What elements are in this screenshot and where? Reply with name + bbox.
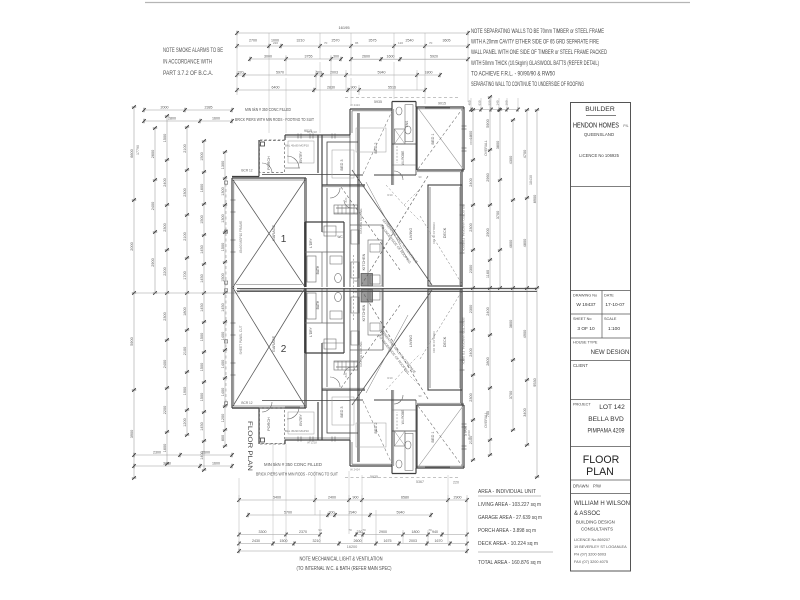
svg-text:4900: 4900 [523, 330, 527, 338]
svg-text:QUEENSLAND: QUEENSLAND [584, 132, 614, 137]
svg-text:6600: 6600 [130, 149, 134, 157]
svg-text:2370: 2370 [299, 530, 307, 534]
svg-text:900: 900 [353, 496, 359, 500]
svg-text:WC: WC [337, 235, 343, 239]
svg-text:220: 220 [273, 41, 278, 45]
svg-text:DECK: DECK [443, 336, 447, 347]
left-bottom mini chain [134, 454, 232, 456]
unit 2 living dining roof diagonals [341, 290, 462, 464]
extension lines top [269, 48, 468, 133]
svg-text:HOUSE TYPE: HOUSE TYPE [573, 341, 598, 345]
svg-text:NOTE SEPARATING WALLS TO BE 70: NOTE SEPARATING WALLS TO BE 70mm TIMBER … [471, 28, 604, 35]
svg-text:5900: 5900 [486, 119, 490, 127]
svg-text:CONSULTANTS: CONSULTANTS [581, 527, 613, 532]
svg-text:2600: 2600 [354, 539, 362, 543]
svg-text:3700: 3700 [509, 391, 513, 399]
svg-text:PROJECT: PROJECT [573, 403, 591, 407]
svg-text:DATE: DATE [604, 294, 614, 298]
unit 1 hallway robe walls [305, 188, 344, 287]
svg-text:BED 1: BED 1 [431, 134, 435, 145]
svg-text:2800: 2800 [168, 117, 176, 121]
svg-text:5367: 5367 [416, 480, 424, 484]
svg-text:3575: 3575 [369, 39, 377, 43]
left-top mini chain [144, 109, 232, 111]
svg-text:16195: 16195 [338, 25, 350, 30]
svg-text:BELLA BVD: BELLA BVD [588, 416, 624, 423]
svg-text:WALL PANEL WITH ONE SIDE OF TI: WALL PANEL WITH ONE SIDE OF TIMBER or ST… [471, 49, 607, 56]
svg-text:TO ACHIEVE F.R.L. - 90/90/90 &: TO ACHIEVE F.R.L. - 90/90/90 & RW50 [471, 70, 555, 77]
svg-text:1400: 1400 [221, 332, 225, 340]
unit 2 bedroom3 walls [322, 288, 365, 462]
svg-text:BCR 12: BCR 12 [241, 169, 252, 173]
svg-text:SEPARATING WALL TO CONTINUE TO: SEPARATING WALL TO CONTINUE TO UNDERSIDE… [471, 81, 584, 88]
unit 2 hall walls [334, 362, 416, 400]
svg-text:BRICK PIERS WITH MIN RODS - FO: BRICK PIERS WITH MIN RODS - FOOTING TO S… [235, 117, 314, 122]
svg-text:PH (07) 3200 6003: PH (07) 3200 6003 [574, 553, 606, 557]
svg-text:820: 820 [344, 372, 348, 377]
svg-text:95: 95 [355, 41, 359, 45]
unit 2 outer walls [232, 287, 464, 474]
unit 2 kitchen sink dark box [361, 290, 373, 303]
svg-text:1800: 1800 [425, 71, 433, 75]
svg-text:5516: 5516 [388, 86, 396, 90]
svg-text:W 2424: W 2424 [350, 468, 360, 472]
svg-text:300: 300 [333, 55, 339, 59]
svg-text:LIVING: LIVING [409, 335, 413, 347]
svg-text:1500: 1500 [221, 243, 225, 251]
svg-text:GARAGE: GARAGE [272, 335, 276, 352]
svg-text:DRAWN: DRAWN [573, 484, 589, 489]
unit 2 bed furniture rects [288, 397, 386, 447]
svg-text:2300: 2300 [469, 223, 473, 231]
unit 1 pier note text [235, 107, 314, 122]
svg-text:PIMPAMA 4209: PIMPAMA 4209 [588, 428, 625, 435]
svg-text:5970: 5970 [276, 71, 284, 75]
unit 1 living dining roof diagonals [341, 111, 462, 285]
unit 2 stair treads [334, 361, 358, 370]
extension lines bottom [239, 444, 448, 540]
svg-text:5940: 5940 [378, 71, 386, 75]
svg-text:1600: 1600 [212, 117, 220, 121]
svg-text:300: 300 [329, 511, 335, 515]
svg-text:R10: R10 [387, 376, 393, 380]
unit 1 bedroom3 walls [322, 113, 365, 287]
right dimension chains [462, 95, 539, 479]
svg-text:140: 140 [496, 100, 500, 105]
unit 2 hallway robe walls [305, 288, 344, 387]
svg-text:OVERALL: OVERALL [484, 140, 488, 156]
unit 1 garage pier dashed line [225, 178, 228, 288]
unit 2 kitchen walls and bench [350, 288, 383, 440]
svg-text:MIN 5kN # 350 CONC FILLED: MIN 5kN # 350 CONC FILLED [245, 107, 291, 112]
svg-text:2940: 2940 [349, 511, 357, 515]
left dimension chains [130, 105, 240, 480]
unit 1 porch outline [260, 141, 285, 173]
title block builder header [573, 106, 629, 158]
svg-text:1600: 1600 [200, 184, 204, 192]
svg-text:2200: 2200 [163, 406, 167, 414]
svg-text:2300: 2300 [469, 393, 473, 401]
unit 1 door arcs [262, 156, 403, 208]
svg-text:ENS: ENS [405, 121, 409, 128]
svg-text:DW: DW [353, 279, 358, 283]
unit 2 pier note text [256, 462, 338, 477]
svg-text:BED 2: BED 2 [374, 423, 378, 434]
svg-text:9015: 9015 [438, 102, 446, 106]
svg-text:KITCHEN: KITCHEN [362, 253, 366, 270]
unit 2 bedroom2 walls [285, 387, 322, 440]
unit 1 window marks on walls [231, 126, 467, 253]
svg-text:3700: 3700 [496, 211, 500, 219]
svg-text:STAIR: STAIR [464, 425, 468, 436]
right-top mini chain [468, 98, 520, 112]
svg-text:1500: 1500 [280, 539, 288, 543]
unit 1 ensuite walk-in-robe walls [392, 105, 416, 185]
svg-text:16200: 16200 [347, 545, 358, 549]
svg-text:2300: 2300 [163, 223, 167, 231]
svg-text:SCALE: SCALE [604, 317, 617, 321]
svg-text:1800: 1800 [183, 307, 187, 315]
svg-text:OVERALL: OVERALL [484, 412, 488, 428]
svg-text:3300: 3300 [259, 530, 267, 534]
unit 1 bed furniture rects [288, 128, 386, 178]
unit 1 hall walls [334, 175, 416, 213]
svg-text:2960: 2960 [486, 173, 490, 181]
svg-text:FLOOR PLAN: FLOOR PLAN [246, 421, 253, 471]
svg-text:3000: 3000 [264, 55, 272, 59]
svg-text:1450: 1450 [221, 303, 225, 311]
unit 2 roof dashed line above top wall [345, 477, 460, 479]
svg-text:W 19437: W 19437 [576, 302, 596, 308]
svg-text:2100: 2100 [183, 347, 187, 355]
svg-text:WILLIAM H WILSON: WILLIAM H WILSON [574, 501, 630, 507]
svg-text:2900: 2900 [379, 530, 387, 534]
svg-text:SHEET PANEL CUT: SHEET PANEL CUT [239, 325, 243, 354]
svg-text:9015: 9015 [304, 129, 312, 133]
svg-text:6580: 6580 [401, 496, 409, 500]
svg-text:1450: 1450 [200, 245, 204, 253]
svg-text:GARAGE: GARAGE [272, 224, 276, 241]
svg-text:2600: 2600 [362, 55, 370, 59]
svg-text:KITCHEN: KITCHEN [362, 304, 366, 321]
unit 2 garage door line [236, 290, 302, 292]
house type row [571, 338, 631, 356]
svg-text:2300: 2300 [163, 312, 167, 320]
svg-text:5900: 5900 [130, 337, 134, 345]
svg-text:BAL 45x90 MGP10: BAL 45x90 MGP10 [285, 144, 309, 148]
svg-text:BRICK PIERS WITH MIN RODS - FO: BRICK PIERS WITH MIN RODS - FOOTING TO S… [256, 472, 338, 477]
svg-text:2900: 2900 [151, 258, 155, 266]
svg-text:2800: 2800 [486, 357, 490, 365]
svg-text:3800: 3800 [509, 320, 513, 328]
svg-text:1500: 1500 [200, 215, 204, 223]
svg-text:BED 2: BED 2 [374, 143, 378, 154]
svg-text:1200: 1200 [221, 414, 225, 422]
unit 1 wall annotation texts [307, 103, 473, 283]
unit 1 roof valley dashes [386, 185, 420, 221]
svg-text:1450: 1450 [200, 274, 204, 282]
svg-text:P/L: P/L [623, 124, 628, 128]
unit 1 garage walls [232, 175, 350, 288]
designer details cell [571, 494, 631, 565]
svg-text:2300: 2300 [469, 305, 473, 313]
svg-text:70: 70 [362, 528, 366, 532]
svg-text:70: 70 [428, 528, 432, 532]
svg-text:2: 2 [281, 344, 287, 355]
svg-text:1: 1 [281, 234, 287, 245]
svg-text:DW: DW [353, 290, 358, 294]
svg-text:ENTRY: ENTRY [299, 414, 303, 426]
svg-text:8900: 8900 [533, 195, 537, 203]
svg-text:4600: 4600 [509, 240, 513, 248]
svg-text:W.I.ROBE: W.I.ROBE [401, 410, 405, 425]
svg-text:1500: 1500 [221, 273, 225, 281]
svg-text:3755: 3755 [305, 55, 313, 59]
note separating walls text block [471, 28, 607, 88]
unit 1 hall dashed line [353, 255, 355, 287]
svg-text:2200: 2200 [163, 267, 167, 275]
svg-text:2400: 2400 [151, 202, 155, 210]
svg-text:W 1218: W 1218 [307, 441, 317, 445]
area schedule table [478, 489, 553, 566]
floor plan title cell [571, 447, 631, 479]
svg-text:PORCH: PORCH [267, 417, 271, 431]
svg-text:320: 320 [238, 71, 244, 75]
svg-text:BUILDING DESIGN: BUILDING DESIGN [576, 520, 615, 525]
svg-text:BED 3: BED 3 [340, 407, 344, 418]
svg-text:LICENCE No 869207: LICENCE No 869207 [574, 538, 610, 542]
svg-text:4300: 4300 [509, 156, 513, 164]
svg-text:1200: 1200 [183, 418, 187, 426]
svg-text:RAKING CEILING: RAKING CEILING [359, 208, 363, 234]
svg-text:2900: 2900 [486, 228, 490, 236]
svg-text:1300: 1300 [221, 214, 225, 222]
svg-text:3210: 3210 [313, 539, 321, 543]
svg-text:SELECTED HANDRAIL TO DECK: SELECTED HANDRAIL TO DECK [462, 204, 466, 252]
svg-text:2600: 2600 [151, 150, 155, 158]
svg-text:LOT 142: LOT 142 [599, 404, 625, 411]
svg-text:1500: 1500 [200, 152, 204, 160]
svg-text:17790: 17790 [136, 145, 140, 155]
project row [571, 400, 631, 435]
svg-text:1300: 1300 [221, 187, 225, 195]
svg-text:NOTE MECHANICAL LIGHT & VENTIL: NOTE MECHANICAL LIGHT & VENTILATION [300, 557, 383, 563]
svg-text:1600: 1600 [212, 462, 220, 466]
svg-text:2540: 2540 [406, 39, 414, 43]
svg-text:820: 820 [344, 197, 348, 202]
svg-text:3605: 3605 [443, 39, 451, 43]
svg-text:220: 220 [453, 481, 459, 485]
svg-text:L'DRY: L'DRY [309, 237, 313, 247]
svg-text:DO 30 CHORD: DO 30 CHORD [432, 331, 436, 353]
svg-text:2000: 2000 [161, 106, 169, 110]
svg-text:BED 1: BED 1 [431, 432, 435, 443]
unit 1 deck walls [428, 185, 462, 286]
svg-text:(TO INTERNAL W.C. & BATH (REFE: (TO INTERNAL W.C. & BATH (REFER MAIN SPE… [297, 566, 392, 572]
unit 2 garage walls [232, 288, 350, 408]
svg-text:5920: 5920 [430, 55, 438, 59]
unit 2 deck walls [428, 289, 462, 390]
svg-text:1300: 1300 [221, 161, 225, 169]
unit 1 garage door line [236, 284, 302, 286]
svg-text:NOTE SMOKE ALARMS TO BE: NOTE SMOKE ALARMS TO BE [163, 47, 223, 54]
svg-text:1670: 1670 [435, 539, 443, 543]
unit 2 bedroom1 roof diagonals [418, 406, 463, 467]
unit 1 bathroom fixtures [307, 226, 342, 283]
svg-text:70: 70 [324, 41, 328, 45]
svg-text:2100: 2100 [183, 232, 187, 240]
svg-text:2300: 2300 [183, 188, 187, 196]
svg-text:2100: 2100 [183, 144, 187, 152]
svg-text:PART 3.7.2 OF B.C.A.: PART 3.7.2 OF B.C.A. [163, 70, 213, 77]
svg-text:L'DRY: L'DRY [309, 326, 313, 336]
unit 2 window marks on walls [231, 322, 467, 449]
svg-text:BCR 12: BCR 12 [241, 401, 252, 405]
svg-text:45x90 MGP10 FRAME: 45x90 MGP10 FRAME [239, 221, 243, 253]
svg-text:500: 500 [316, 71, 322, 75]
svg-text:FLOOR: FLOOR [583, 454, 620, 466]
party wall extension right [462, 287, 537, 289]
unit 2 wall annotation texts [307, 290, 471, 472]
svg-text:2900: 2900 [454, 496, 462, 500]
svg-text:1400: 1400 [221, 360, 225, 368]
svg-text:2400: 2400 [328, 496, 336, 500]
party wall extension left [134, 292, 240, 294]
svg-text:19 BEVERLEY ST LOGANLEA: 19 BEVERLEY ST LOGANLEA [574, 545, 627, 549]
svg-text:3800: 3800 [496, 141, 500, 149]
svg-text:W 1818: W 1818 [469, 135, 473, 145]
svg-text:2400: 2400 [469, 178, 473, 186]
svg-text:2430: 2430 [252, 539, 260, 543]
svg-text:2300: 2300 [469, 265, 473, 273]
svg-text:5935: 5935 [370, 475, 378, 479]
svg-text:1:100: 1:100 [608, 326, 620, 332]
svg-text:5935: 5935 [374, 100, 382, 104]
unit 2 roof valley dashes [386, 354, 420, 390]
svg-text:BUILDER: BUILDER [585, 106, 615, 113]
svg-text:P/W: P/W [593, 484, 601, 489]
note smoke alarms text block [163, 47, 223, 77]
unit 2 bathroom fixtures [307, 292, 342, 349]
svg-text:1800: 1800 [412, 530, 420, 534]
svg-text:5700: 5700 [284, 511, 292, 515]
svg-text:1600: 1600 [387, 55, 395, 59]
svg-text:DECK AREA - 10.224 sq m: DECK AREA - 10.224 sq m [478, 541, 538, 547]
svg-text:3210: 3210 [297, 39, 305, 43]
svg-text:LICENCE No 106925: LICENCE No 106925 [579, 153, 619, 158]
svg-text:2600: 2600 [202, 451, 210, 455]
svg-text:HENDON HOMES: HENDON HOMES [573, 121, 619, 130]
svg-text:IN ACCORDANCE WITH: IN ACCORDANCE WITH [163, 59, 212, 66]
unit 2 porch outline [260, 408, 285, 444]
unit 2 hall dashed line [353, 288, 355, 320]
svg-text:PLAN: PLAN [586, 466, 614, 478]
svg-text:NEW DESIGN: NEW DESIGN [591, 350, 630, 356]
svg-text:5940: 5940 [397, 511, 405, 515]
svg-text:1900: 1900 [183, 387, 187, 395]
svg-text:3 OF 10: 3 OF 10 [577, 326, 595, 332]
svg-text:3400: 3400 [523, 408, 527, 416]
drawn row [571, 480, 631, 489]
svg-text:1500: 1500 [163, 134, 167, 142]
svg-text:& ASSOC: & ASSOC [574, 511, 601, 517]
bottom dimension chains [237, 475, 469, 572]
unit 1 outer walls [232, 102, 464, 289]
unit 2 door arcs [262, 367, 403, 419]
svg-text:1500: 1500 [200, 393, 204, 401]
svg-text:70: 70 [429, 41, 433, 45]
svg-text:120: 120 [398, 41, 403, 45]
svg-text:BATH: BATH [316, 265, 320, 274]
title block divider lines [571, 186, 631, 188]
svg-text:1500: 1500 [200, 363, 204, 371]
svg-text:1450: 1450 [200, 303, 204, 311]
svg-text:BATH: BATH [316, 300, 320, 309]
svg-text:2003: 2003 [409, 539, 417, 543]
svg-text:RAKING CEILING: RAKING CEILING [359, 341, 363, 367]
client row [571, 361, 631, 369]
svg-text:4700: 4700 [523, 150, 527, 158]
svg-text:BED 3: BED 3 [340, 160, 344, 171]
svg-text:17-10-07: 17-10-07 [605, 302, 625, 308]
svg-text:2300: 2300 [153, 451, 161, 455]
svg-text:1700: 1700 [183, 271, 187, 279]
svg-text:TOTAL AREA - 160.876 sq m: TOTAL AREA - 160.876 sq m [478, 560, 541, 566]
top dimension chains [235, 25, 470, 95]
svg-text:1500: 1500 [200, 333, 204, 341]
svg-text:SELECTED HANDRAIL TO DECK: SELECTED HANDRAIL TO DECK [462, 317, 466, 365]
svg-text:9530: 9530 [533, 378, 537, 386]
unit 1 bedroom2 walls [285, 135, 322, 188]
svg-text:W 2424: W 2424 [350, 103, 360, 107]
unit 1 roof dashed line above top wall [345, 97, 460, 99]
svg-text:BAL 45x90 MGP10: BAL 45x90 MGP10 [285, 429, 309, 433]
svg-text:1400: 1400 [221, 388, 225, 396]
svg-text:W.I.ROBE: W.I.ROBE [401, 151, 405, 166]
svg-text:WITH 50mm THICK (10.5kg/m) GLA: WITH 50mm THICK (10.5kg/m) GLASWOOL BATT… [471, 60, 599, 67]
svg-text:2700: 2700 [249, 39, 257, 43]
unit 1 room labels [267, 121, 447, 275]
svg-text:WITH A 20mm CAVITY EITHER SIDE: WITH A 20mm CAVITY EITHER SIDE OF 65 GRD… [471, 39, 599, 46]
unit 2 porch post [261, 438, 265, 442]
svg-text:FAX (07) 3200 4075: FAX (07) 3200 4075 [574, 560, 608, 564]
unit 2 bedroom1 walls [417, 403, 464, 468]
svg-text:1600: 1600 [163, 444, 167, 452]
svg-text:2400: 2400 [163, 178, 167, 186]
unit 1 kitchen walls and bench [350, 135, 383, 287]
svg-text:2570: 2570 [332, 39, 340, 43]
svg-text:R10: R10 [387, 193, 393, 197]
unit 2 room labels [267, 300, 468, 442]
svg-text:1675: 1675 [384, 539, 392, 543]
svg-text:4800: 4800 [523, 239, 527, 247]
svg-text:DRAWING No: DRAWING No [573, 294, 597, 298]
unit 1 stair treads [334, 205, 358, 214]
unit 1 porch post [261, 142, 265, 146]
svg-text:6400: 6400 [272, 86, 280, 90]
svg-text:PORCH: PORCH [267, 156, 271, 170]
svg-text:ENTRY: ENTRY [299, 151, 303, 163]
svg-text:2385: 2385 [205, 106, 213, 110]
svg-text:1450: 1450 [200, 422, 204, 430]
unit 2 garage pier dashed line [225, 287, 228, 408]
svg-text:LIVING AREA - 103.227 sq m: LIVING AREA - 103.227 sq m [478, 502, 541, 508]
svg-text:SHEET No: SHEET No [573, 317, 592, 321]
unit 2 ensuite walk-in-robe walls [392, 390, 416, 470]
svg-text:2400: 2400 [163, 360, 167, 368]
unit 1 bedroom1 walls [417, 107, 464, 172]
svg-text:GARAGE AREA - 27.639 sq m: GARAGE AREA - 27.639 sq m [478, 515, 542, 521]
